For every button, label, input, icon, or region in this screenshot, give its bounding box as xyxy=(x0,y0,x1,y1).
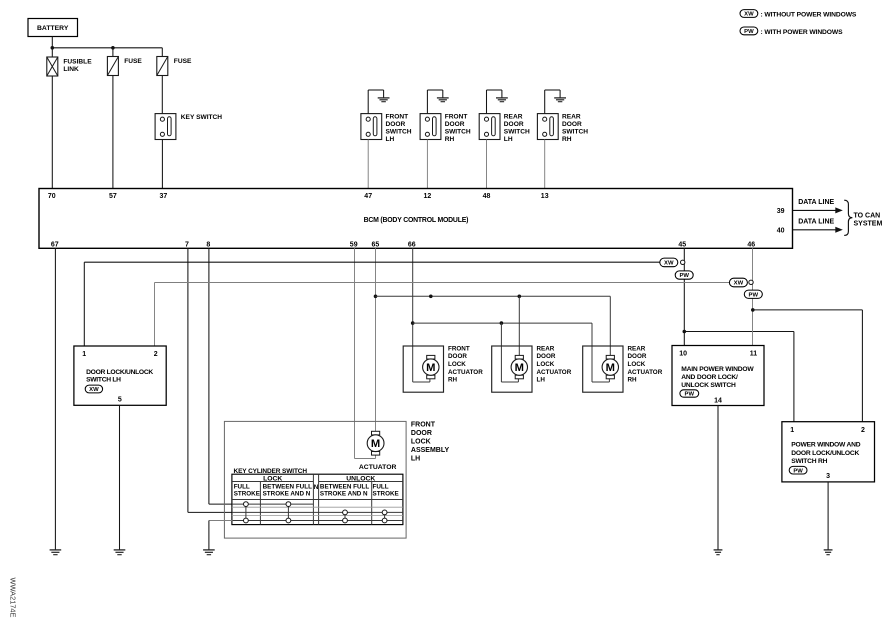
svg-text:59: 59 xyxy=(350,242,358,249)
svg-text:REAR: REAR xyxy=(562,113,581,120)
svg-text:RH: RH xyxy=(448,377,458,384)
svg-text:70: 70 xyxy=(48,193,56,200)
svg-text:DOOR: DOOR xyxy=(448,353,467,360)
svg-text:40: 40 xyxy=(777,228,785,235)
svg-text:BCM (BODY CONTROL MODULE): BCM (BODY CONTROL MODULE) xyxy=(364,217,469,224)
svg-text:DOOR: DOOR xyxy=(537,353,556,360)
svg-text:LINK: LINK xyxy=(63,66,79,73)
svg-text:UNLOCK: UNLOCK xyxy=(346,475,375,482)
svg-text:SWITCH: SWITCH xyxy=(445,129,471,136)
svg-text:WWA2174E: WWA2174E xyxy=(8,578,17,618)
svg-text:M: M xyxy=(606,362,615,374)
svg-text:: WITH POWER WINDOWS: : WITH POWER WINDOWS xyxy=(761,29,844,36)
svg-text:DATA LINE: DATA LINE xyxy=(798,218,834,225)
svg-text:DOOR LOCK/UNLOCK: DOOR LOCK/UNLOCK xyxy=(791,450,859,457)
svg-text:13: 13 xyxy=(541,193,549,200)
svg-text:LH: LH xyxy=(386,136,395,143)
svg-text:XW: XW xyxy=(734,281,744,287)
svg-text:37: 37 xyxy=(160,193,168,200)
svg-text:3: 3 xyxy=(826,473,830,480)
svg-text:FRONT: FRONT xyxy=(448,345,470,352)
svg-text:PW: PW xyxy=(744,29,754,35)
svg-text:2: 2 xyxy=(861,427,865,434)
svg-text:8: 8 xyxy=(206,242,210,249)
svg-text:PW: PW xyxy=(685,392,695,398)
svg-text:BATTERY: BATTERY xyxy=(37,25,69,32)
svg-text:46: 46 xyxy=(747,242,755,249)
svg-text:REAR: REAR xyxy=(628,345,646,352)
svg-text:ASSEMBLY: ASSEMBLY xyxy=(411,447,450,454)
svg-text:PW: PW xyxy=(793,468,803,474)
svg-text:STROKE AND N: STROKE AND N xyxy=(263,491,311,498)
svg-text:LH: LH xyxy=(537,377,546,384)
svg-text:DOOR: DOOR xyxy=(628,353,647,360)
svg-text:67: 67 xyxy=(51,242,59,249)
svg-text:39: 39 xyxy=(777,208,785,215)
svg-text:POWER WINDOW AND: POWER WINDOW AND xyxy=(791,442,860,449)
svg-text:DOOR: DOOR xyxy=(411,430,432,437)
svg-text:UNLOCK SWITCH: UNLOCK SWITCH xyxy=(681,382,736,389)
svg-text:14: 14 xyxy=(714,397,722,404)
svg-text:ACTUATOR: ACTUATOR xyxy=(448,369,483,376)
svg-text:48: 48 xyxy=(483,193,491,200)
svg-text:SWITCH: SWITCH xyxy=(386,129,412,136)
svg-text:KEY SWITCH: KEY SWITCH xyxy=(181,114,223,121)
svg-text:1: 1 xyxy=(790,427,794,434)
svg-text:PW: PW xyxy=(749,292,759,298)
svg-text:M: M xyxy=(515,362,524,374)
svg-text:LOCK: LOCK xyxy=(411,438,431,445)
svg-text:SWITCH LH: SWITCH LH xyxy=(86,377,121,384)
svg-text:REAR: REAR xyxy=(537,345,555,352)
svg-text:57: 57 xyxy=(109,193,117,200)
svg-text:N: N xyxy=(314,484,319,491)
svg-text:SYSTEM: SYSTEM xyxy=(854,221,883,228)
svg-text:ACTUATOR: ACTUATOR xyxy=(359,464,397,471)
svg-text:SWITCH RH: SWITCH RH xyxy=(791,458,827,465)
svg-text:M: M xyxy=(426,362,435,374)
svg-text:STROKE AND N: STROKE AND N xyxy=(320,491,368,498)
svg-text:FRONT: FRONT xyxy=(445,113,468,120)
svg-text:RH: RH xyxy=(628,377,638,384)
svg-text:LH: LH xyxy=(411,455,420,462)
svg-text:DOOR: DOOR xyxy=(562,121,582,128)
svg-text:DATA LINE: DATA LINE xyxy=(798,199,834,206)
svg-text:DOOR LOCK/UNLOCK: DOOR LOCK/UNLOCK xyxy=(86,369,153,376)
svg-text:XW: XW xyxy=(744,12,754,18)
svg-text:1: 1 xyxy=(82,351,86,358)
svg-text:SWITCH: SWITCH xyxy=(562,129,588,136)
svg-text:AND DOOR LOCK/: AND DOOR LOCK/ xyxy=(681,374,738,381)
svg-text:LOCK: LOCK xyxy=(628,361,646,368)
svg-text:TO CAN: TO CAN xyxy=(854,212,881,219)
svg-text:STROKE: STROKE xyxy=(373,491,399,498)
svg-text:M: M xyxy=(371,438,380,450)
svg-text:XW: XW xyxy=(664,261,674,267)
svg-text:STROKE: STROKE xyxy=(234,491,260,498)
svg-text:7: 7 xyxy=(185,242,189,249)
svg-text:XW: XW xyxy=(89,387,99,393)
svg-text:FUSE: FUSE xyxy=(124,58,142,65)
svg-text:ACTUATOR: ACTUATOR xyxy=(628,369,663,376)
svg-text:: WITHOUT POWER WINDOWS: : WITHOUT POWER WINDOWS xyxy=(761,11,857,18)
svg-text:FUSIBLE: FUSIBLE xyxy=(63,58,92,65)
svg-text:MAIN POWER WINDOW: MAIN POWER WINDOW xyxy=(681,366,754,373)
svg-text:LOCK: LOCK xyxy=(448,361,466,368)
svg-text:DOOR: DOOR xyxy=(386,121,406,128)
svg-text:SWITCH: SWITCH xyxy=(504,129,530,136)
svg-text:RH: RH xyxy=(562,136,572,143)
svg-text:REAR: REAR xyxy=(504,113,523,120)
svg-text:ACTUATOR: ACTUATOR xyxy=(537,369,572,376)
svg-text:DOOR: DOOR xyxy=(445,121,465,128)
svg-text:5: 5 xyxy=(118,397,122,404)
svg-text:11: 11 xyxy=(750,351,758,358)
svg-text:LOCK: LOCK xyxy=(537,361,555,368)
svg-text:FUSE: FUSE xyxy=(174,58,192,65)
svg-text:45: 45 xyxy=(678,242,686,249)
svg-text:FRONT: FRONT xyxy=(386,113,409,120)
svg-text:PW: PW xyxy=(679,273,689,279)
svg-text:LH: LH xyxy=(504,136,513,143)
svg-text:LOCK: LOCK xyxy=(263,475,282,482)
svg-text:66: 66 xyxy=(408,242,416,249)
svg-text:47: 47 xyxy=(364,193,372,200)
svg-text:10: 10 xyxy=(679,351,687,358)
svg-text:DOOR: DOOR xyxy=(504,121,524,128)
svg-text:RH: RH xyxy=(445,136,455,143)
svg-text:65: 65 xyxy=(372,242,380,249)
svg-text:2: 2 xyxy=(154,351,158,358)
svg-text:12: 12 xyxy=(424,193,432,200)
svg-text:FRONT: FRONT xyxy=(411,421,436,428)
